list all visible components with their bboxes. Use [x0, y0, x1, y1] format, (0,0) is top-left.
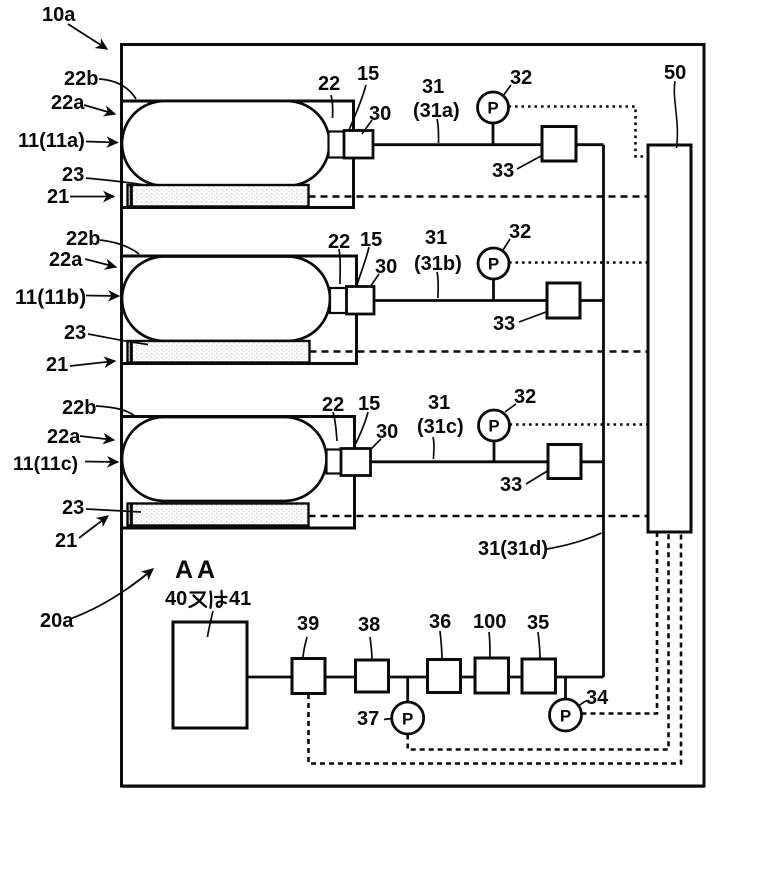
dashed line band 23 to 50 row a [309, 195, 648, 198]
svg-text:11(11a): 11(11a) [18, 130, 85, 152]
svg-text:15: 15 [358, 393, 380, 415]
pressure sensor 37 [392, 702, 424, 734]
pressure sensor 32 row a [478, 92, 509, 123]
svg-text:23: 23 [64, 322, 86, 344]
component 38 [356, 660, 389, 692]
svg-text:100: 100 [473, 611, 506, 633]
svg-text:31: 31 [428, 392, 450, 414]
pipe 31(31b) [374, 299, 604, 302]
svg-text:15: 15 [357, 63, 379, 85]
band end plate row b [130, 341, 133, 363]
nozzle 15 row b [330, 288, 347, 313]
sensor 34 stem [564, 677, 567, 700]
svg-text:32: 32 [514, 386, 536, 408]
svg-text:AA: AA [175, 556, 219, 584]
svg-text:31: 31 [425, 227, 447, 249]
svg-text:36: 36 [429, 611, 451, 633]
sensor stem row b [492, 279, 495, 301]
dashed signal line from 39 [309, 534, 682, 764]
svg-text:23: 23 [62, 164, 84, 186]
control unit 50 [648, 145, 691, 532]
svg-text:22a: 22a [51, 92, 85, 114]
svg-text:39: 39 [297, 613, 319, 635]
tank 11(11a) [122, 101, 330, 186]
svg-text:22b: 22b [66, 228, 100, 250]
svg-text:21: 21 [55, 530, 77, 552]
svg-text:32: 32 [509, 221, 531, 243]
pressure sensor 32 row c [479, 410, 510, 441]
tank valve 30 row c [341, 449, 371, 476]
nozzle 15 row c [327, 450, 342, 474]
dashed signal line from 34 [582, 534, 658, 714]
tank frame 22 row b [122, 256, 357, 364]
sensor stem row a [492, 123, 495, 145]
tank valve 30 row b [347, 287, 375, 315]
svg-text:10a: 10a [42, 4, 76, 26]
sensor signal dotted line row c [510, 423, 647, 426]
svg-text:(31c): (31c) [417, 416, 464, 438]
dashed line band 23 to 50 row c [309, 515, 648, 518]
mount band 23 row c [128, 504, 309, 526]
svg-text:(31a): (31a) [413, 100, 460, 122]
svg-text:(31b): (31b) [414, 253, 462, 275]
component 39 [292, 659, 325, 694]
component 100 [475, 658, 509, 693]
dashed line band 23 to 50 row b [310, 350, 648, 353]
mount band 23 row b [128, 341, 310, 363]
svg-text:21: 21 [47, 186, 69, 208]
svg-text:P: P [560, 707, 571, 726]
device 40/41 box [173, 622, 247, 728]
sensor signal dotted line row a [509, 107, 647, 157]
svg-text:41: 41 [229, 588, 251, 610]
svg-text:34: 34 [586, 687, 609, 709]
svg-text:35: 35 [527, 612, 549, 634]
svg-text:31: 31 [422, 76, 444, 98]
svg-text:40: 40 [165, 588, 187, 610]
svg-text:21: 21 [46, 354, 68, 376]
tank 11(11c) [122, 417, 327, 501]
svg-text:22: 22 [318, 73, 340, 95]
svg-text:33: 33 [500, 474, 522, 496]
svg-text:32: 32 [510, 67, 532, 89]
tank frame 22 row c [122, 417, 355, 529]
svg-text:22b: 22b [64, 68, 98, 90]
svg-text:P: P [488, 255, 499, 274]
enclosure border 10a [122, 45, 705, 787]
svg-text:50: 50 [664, 62, 686, 84]
svg-text:22b: 22b [62, 397, 96, 419]
valve 33 row b [547, 283, 580, 318]
svg-text:33: 33 [493, 313, 515, 335]
pressure sensor 32 row b [478, 248, 509, 279]
svg-text:22a: 22a [47, 426, 81, 448]
sensor 37 stem [406, 677, 409, 703]
svg-text:31(31d): 31(31d) [478, 538, 548, 560]
supply line bottom [247, 676, 604, 679]
sensor stem row c [493, 441, 496, 462]
trunk pipe 31(31d) [602, 145, 605, 677]
svg-text:33: 33 [492, 160, 514, 182]
pipe 31(31a) [373, 143, 604, 146]
arrow 10a [68, 24, 107, 49]
component 35 [522, 659, 556, 693]
band end plate row a [130, 185, 133, 207]
tank 11(11b) [122, 257, 330, 342]
svg-text:P: P [488, 417, 499, 436]
svg-text:30: 30 [369, 103, 391, 125]
svg-text:15: 15 [360, 229, 382, 251]
pressure sensor 34 [550, 699, 582, 731]
svg-text:11(11c): 11(11c) [13, 453, 78, 475]
valve 33 row a [542, 127, 576, 162]
svg-text:11(11b): 11(11b) [15, 286, 86, 309]
band end plate row c [130, 504, 133, 526]
valve 33 row c [548, 445, 581, 479]
dashed signal line from 37 [408, 534, 669, 750]
svg-text:P: P [487, 99, 498, 118]
nozzle 15 row a [329, 132, 345, 158]
sensor signal dotted line row b [509, 261, 647, 264]
pipe 31(31c) [371, 460, 604, 463]
svg-text:37: 37 [357, 708, 379, 730]
tank frame 22 row a [122, 101, 354, 208]
component 36 [428, 660, 461, 693]
svg-text:38: 38 [358, 614, 380, 636]
svg-text:20a: 20a [40, 610, 74, 632]
tank valve 30 row a [344, 131, 373, 159]
svg-text:22a: 22a [49, 249, 83, 271]
svg-text:23: 23 [62, 497, 84, 519]
mount band 23 row a [128, 185, 309, 207]
svg-text:P: P [402, 710, 413, 729]
